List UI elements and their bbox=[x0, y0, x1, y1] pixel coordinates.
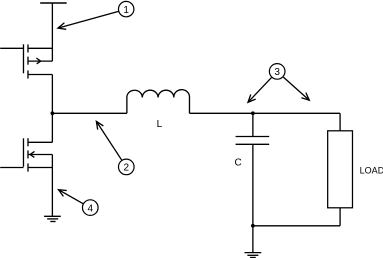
callout 3 bbox=[248, 64, 309, 103]
node A switch node bbox=[50, 111, 54, 115]
wire node A to inductor bbox=[52, 112, 127, 114]
wire node A to Q2 drain bbox=[51, 113, 53, 142]
node C capacitor ground node bbox=[251, 224, 255, 228]
power rail VCC bbox=[40, 3, 67, 61]
transistor Q1 bbox=[0, 44, 52, 78]
wire Q1 source to node A bbox=[51, 75, 53, 114]
wire bottom return bbox=[253, 225, 340, 227]
callout 2 bbox=[96, 121, 134, 174]
svg-text:L: L bbox=[157, 119, 163, 130]
load bbox=[328, 113, 383, 226]
callout 1 bbox=[58, 1, 134, 29]
wire Q2 source to ground bbox=[51, 155, 53, 217]
svg-text:1: 1 bbox=[123, 5, 129, 16]
svg-text:2: 2 bbox=[123, 163, 129, 174]
svg-text:LOAD: LOAD bbox=[360, 166, 383, 176]
svg-text:3: 3 bbox=[274, 67, 280, 78]
node B output node bbox=[251, 111, 255, 115]
transistor Q2 bbox=[0, 138, 52, 171]
ground Q2 bbox=[44, 216, 61, 221]
svg-text:4: 4 bbox=[87, 203, 93, 214]
svg-text:C: C bbox=[234, 157, 241, 168]
ground output bbox=[244, 226, 261, 258]
wire inductor to load bbox=[189, 112, 340, 114]
inductor L bbox=[127, 90, 190, 130]
capacitor C bbox=[234, 113, 269, 226]
callout 4 bbox=[58, 190, 98, 216]
